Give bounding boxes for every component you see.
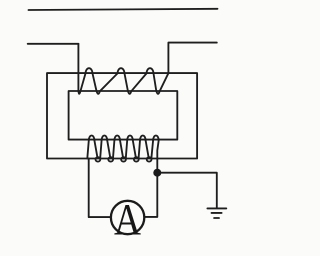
wire: ammeter right lead up through junction: [144, 158, 157, 217]
ground symbol: [207, 208, 226, 218]
transformer core window (inner rectangle): [69, 91, 178, 140]
transformer core outer edge: [47, 73, 197, 158]
primary winding (top coil, 3 turns): [78, 44, 168, 94]
wire: top bus line: [29, 9, 218, 10]
secondary winding (bottom coil, 6 turns): [87, 140, 89, 158]
wire: left primary lead: [28, 43, 79, 45]
wire: right primary lead: [168, 43, 216, 74]
wire: secondary left lead to ammeter: [89, 158, 112, 217]
node: junction of secondary, ammeter and earth: [153, 169, 161, 177]
svg-text:A: A: [114, 194, 141, 244]
wire: ground lead from junction: [157, 173, 217, 208]
ammeter A: [111, 194, 144, 244]
